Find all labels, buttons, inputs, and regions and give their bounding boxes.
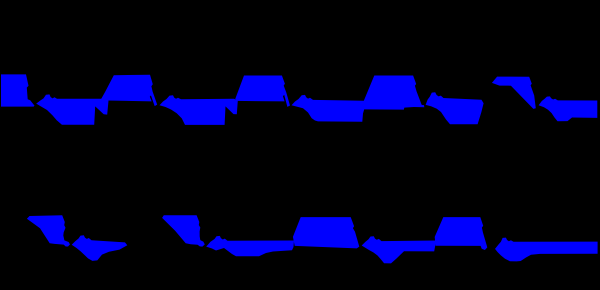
wire row1 ringback+sag segment B [160,95,238,125]
wire row2 tall pulse1 [293,217,359,248]
wire row1 ringback+sag segment A [36,94,108,124]
wire row2 falling pulse1 kite [27,215,70,246]
wire row1 ringback+sag segment C [292,95,365,122]
wire row1 ringback+sag segment D [426,92,484,124]
wire row1 pulse4 [364,76,425,110]
wire row2 ringback+sag segment A [72,235,128,261]
wire row2 tall pulse2 [435,217,488,250]
wire row1 pulse1 (left block) [1,74,35,106]
wire row1 pulse3 [235,76,290,107]
wire row2 falling pulse2 kite [162,215,205,246]
wire row2 ringback+sag segment B [206,236,294,256]
wire row1 pulse2 [101,75,157,106]
wire row2 ringback+long low segment D [495,238,598,262]
wire row1 ringback+tail segment E [539,96,598,121]
wire row2 ringback+sag segment C [362,236,436,263]
wire row1 pulse5 (hatchet) [492,77,536,109]
